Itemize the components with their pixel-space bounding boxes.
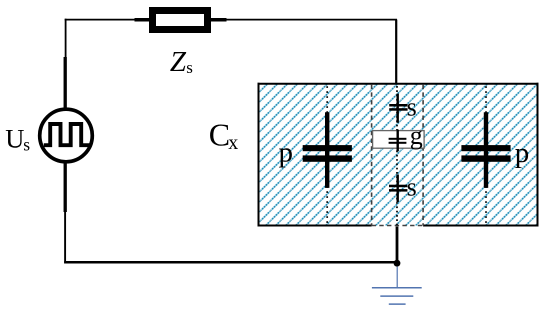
svg-text:s: s	[186, 58, 193, 77]
svg-text:s: s	[407, 173, 417, 202]
svg-text:x: x	[228, 132, 238, 154]
svg-text:Z: Z	[170, 46, 187, 78]
svg-text:U: U	[5, 124, 24, 154]
svg-text:s: s	[23, 134, 30, 154]
svg-text:s: s	[407, 92, 417, 121]
svg-text:p: p	[515, 137, 530, 169]
svg-text:C: C	[209, 117, 230, 153]
svg-text:p: p	[279, 137, 294, 169]
svg-text:g: g	[410, 121, 423, 150]
